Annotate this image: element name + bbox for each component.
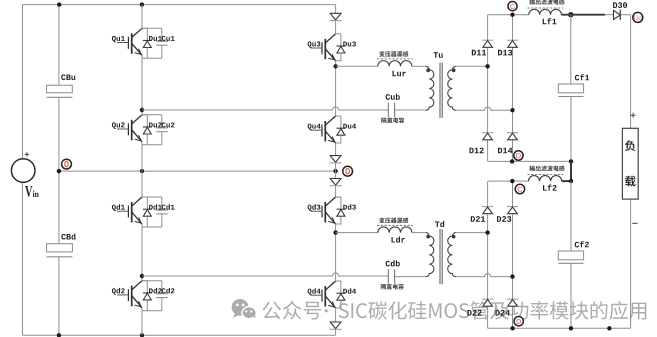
capacitor CBd: [47, 244, 73, 252]
Tu primary polarity dot: [426, 68, 430, 72]
label D24: [496, 310, 510, 316]
diode Du3 (anti-parallel): [336, 34, 346, 61]
label Qu4: [308, 124, 321, 131]
load box 负载: [622, 128, 638, 199]
diode Du4 (anti-parallel): [336, 116, 346, 143]
capacitor Cd1 (snubber): [142, 197, 168, 227]
label Qd1: [112, 204, 125, 211]
wire bus-capacitor column: [58, 5, 60, 336]
net marker Uo: [633, 12, 643, 22]
junction top rail / CBu: [57, 2, 61, 6]
transformer Tu secondary: [448, 66, 456, 110]
wire rectifier branch D21/D22: [487, 181, 489, 328]
dashed separator Lf2: [527, 174, 563, 176]
transistor Qd4 (IGBT): [311, 281, 336, 311]
diode D14: [507, 133, 518, 140]
label Cd2: [162, 288, 175, 294]
junction right leg / Ldr tap: [333, 230, 337, 234]
Tu secondary polarity dot: [452, 68, 456, 72]
diode D21: [482, 207, 493, 214]
diode Dd3 (anti-parallel): [336, 197, 346, 224]
label Ldr: [392, 237, 405, 243]
wire output bottom rail: [488, 327, 631, 329]
diode D23: [507, 207, 518, 214]
label D21: [471, 216, 485, 222]
diode D11: [482, 40, 493, 47]
wire midpoint rail (node 0): [59, 170, 336, 172]
wire Lf1 to D30 (thick): [562, 14, 606, 16]
label D23: [497, 216, 511, 222]
wire load rail: [630, 15, 632, 329]
watermark wechat icon: [232, 299, 258, 320]
wire left edge (Vin column): [22, 5, 24, 336]
transformer Td secondary: [448, 233, 456, 277]
junction left lower mid node: [140, 274, 144, 278]
junction right leg / Lur tap: [333, 64, 337, 68]
label 负: [625, 140, 635, 151]
wire upper mid link (to Cub): [142, 107, 388, 110]
label Dd4: [343, 288, 356, 294]
inductor Ldr (leakage): [378, 227, 412, 233]
transistor Qu1 (IGBT): [117, 28, 142, 58]
diode D13: [507, 40, 518, 47]
transformer Tu core: [439, 63, 441, 118]
junction bottom rail x610: [607, 326, 611, 330]
net marker D upper: [514, 151, 523, 160]
wire Td secondary top: [456, 232, 488, 234]
transformer Td primary: [426, 233, 434, 277]
label Lur: [393, 71, 406, 77]
label Dd2: [149, 288, 162, 294]
junction bottom rail / left leg: [140, 333, 144, 337]
capacitor Cu1 (snubber): [142, 28, 168, 58]
diode Dd1 (anti-parallel): [142, 197, 152, 227]
net marker C lower: [515, 184, 524, 193]
wire Lf2 output (thick): [562, 180, 571, 182]
dashed separator upper: [377, 58, 413, 60]
series link rail D to rail C2 (thick): [570, 161, 572, 181]
wire lower mid link (to Cdb): [142, 273, 388, 276]
watermark separator dot: [325, 309, 328, 312]
junction D13 top rail: [510, 13, 514, 17]
clamp diode above node 0: [329, 156, 341, 163]
wire Ldr tap: [336, 232, 378, 234]
junction top rail / left leg: [140, 2, 144, 6]
label Cub: [386, 94, 400, 100]
junction D23 rail C2: [510, 179, 514, 183]
plus polarity of Vin: [25, 152, 29, 156]
plus terminal of load: [631, 113, 636, 118]
junction D24 bottom rail: [510, 326, 514, 330]
wire rectifier branch D11/D12: [487, 15, 489, 162]
junction bottom rail / bus caps: [57, 333, 61, 337]
wire left leg column: [141, 5, 143, 336]
label D30: [613, 2, 627, 8]
wire output rail C2: [488, 180, 529, 182]
clamp diode below node 0: [329, 179, 341, 186]
label D22: [468, 310, 482, 316]
label Cu2: [162, 122, 175, 127]
transformer Td core: [439, 229, 441, 284]
capacitor CBu: [47, 85, 73, 93]
label Qu3: [308, 41, 321, 48]
node 0 marker left: [62, 159, 72, 169]
junction mid rail / left leg: [140, 169, 144, 173]
label Cd1: [162, 204, 175, 210]
junction Lf1 output: [568, 12, 573, 17]
transistor Qu4 (IGBT): [311, 116, 336, 146]
diode Dd2 (anti-parallel): [142, 281, 152, 311]
transistor Qd1 (IGBT): [117, 197, 142, 227]
dashed separator lower: [377, 224, 413, 226]
watermark text SIC...应用: [339, 301, 647, 320]
junction D14 neg rail: [510, 159, 514, 163]
label Qu2: [112, 122, 125, 128]
transistor Qd3 (IGBT): [311, 197, 336, 227]
dashed separator Lf1: [527, 7, 563, 9]
label CBd: [61, 234, 75, 240]
Td secondary polarity dot: [452, 235, 456, 239]
capacitor Cd2 (snubber): [142, 281, 168, 311]
net marker D lower: [514, 317, 523, 326]
label Lf2: [543, 185, 557, 191]
label 隔直电容 (DC blocking cap): [381, 117, 404, 123]
wire Tu secondary top: [456, 65, 488, 67]
label 隔直电容 lower: [381, 284, 404, 290]
junction D14 secondary-bottom: [510, 108, 514, 112]
inductor Lf1: [529, 9, 562, 14]
label D14: [498, 148, 512, 154]
junction mid rail / bus caps: [57, 169, 61, 173]
wire right leg column: [335, 5, 337, 336]
voltage source Vin: [11, 159, 35, 183]
diode D24: [507, 299, 518, 306]
junction Cf1 neg rail: [569, 159, 573, 163]
junction Lf2 output: [569, 179, 573, 183]
diode D30: [614, 10, 621, 19]
wire rectifier branch D13/D14: [512, 15, 514, 162]
label 变压器漏感 lower: [379, 218, 408, 224]
transistor Qu2 (IGBT): [117, 115, 142, 145]
diode D22: [482, 299, 493, 306]
capacitor Cf1: [558, 84, 583, 93]
minus terminal of load: [632, 222, 637, 224]
label Vin: [25, 186, 33, 197]
capacitor Cdb: [387, 269, 389, 283]
capacitor Cub: [387, 103, 389, 117]
wire Lur tap: [336, 65, 378, 67]
wire bottom bus rail: [23, 334, 336, 336]
label Du2: [149, 122, 162, 127]
label 输出滤波电感 lower: [530, 166, 565, 172]
net marker C top: [508, 2, 517, 11]
wire Cf2 column: [570, 181, 572, 328]
junction D21 secondary-top: [485, 230, 489, 234]
label Dd3: [343, 204, 356, 210]
label Lf1: [543, 18, 557, 24]
label Cu1: [162, 36, 175, 41]
label D13: [498, 50, 512, 56]
label CBu: [61, 74, 75, 80]
junction mid rail / right leg: [333, 169, 337, 173]
junction D24 secondary-bottom: [510, 274, 514, 278]
wire Cf1 column: [570, 15, 572, 162]
capacitor Cu2 (snubber): [142, 115, 168, 145]
watermark text 公众号: [262, 301, 321, 320]
label Du3: [343, 41, 356, 46]
diode Du2 (anti-parallel): [142, 115, 152, 145]
label Qd3: [308, 204, 321, 211]
label Cf1: [575, 74, 589, 80]
junction Cf2 bottom rail: [569, 326, 573, 330]
label 输出滤波电感 upper: [530, 0, 565, 5]
transistor Qu3 (IGBT): [311, 34, 336, 64]
wire output top rail (net C): [488, 14, 571, 16]
label Cdb: [386, 260, 400, 266]
label D12: [470, 148, 484, 154]
label Qu1: [112, 36, 125, 43]
capacitor Cf2: [558, 251, 583, 260]
transformer Tu primary: [426, 66, 434, 110]
wire top bus rail: [23, 4, 336, 6]
wire Td secondary bottom: [456, 274, 513, 277]
transistor Qd2 (IGBT): [117, 281, 142, 311]
inductor Lur (leakage): [378, 61, 412, 67]
label Tu: [434, 52, 443, 58]
clamp diode bottom (right leg): [329, 322, 341, 329]
clamp diode top (right leg): [329, 13, 341, 20]
label Qd4: [308, 288, 321, 295]
wire Tu secondary bottom: [456, 107, 513, 110]
wire rectifier branch D23/D24: [512, 181, 514, 328]
node 0 marker right leg: [343, 166, 353, 176]
diode Dd4 (anti-parallel): [336, 281, 346, 308]
label Td: [435, 221, 444, 227]
diode D12: [482, 133, 493, 140]
junction D11 secondary-top: [485, 64, 489, 68]
label Dd1: [149, 204, 162, 210]
label Du4: [343, 124, 356, 129]
wire output neg rail (net D): [488, 160, 571, 162]
label 载: [625, 176, 636, 187]
label 变压器漏感 upper: [379, 51, 408, 57]
inductor Lf2: [529, 176, 562, 182]
label Qd2: [112, 288, 125, 295]
label Cf2: [575, 241, 589, 247]
label D11: [472, 50, 486, 56]
junction left upper mid node: [140, 108, 144, 112]
Td primary polarity dot: [426, 235, 430, 239]
diode Du1 (anti-parallel): [142, 28, 152, 58]
label Du1: [149, 36, 162, 41]
